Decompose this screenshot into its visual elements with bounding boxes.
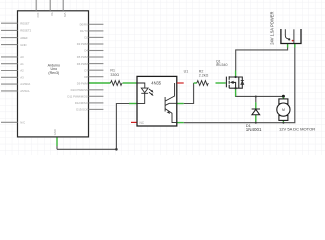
svg-text:D3 PWM: D3 PWM xyxy=(77,42,89,46)
svg-text:D4: D4 xyxy=(84,49,88,53)
svg-text:D2: D2 xyxy=(84,36,88,40)
svg-text:5V: 5V xyxy=(50,13,54,17)
svg-text:A3: A3 xyxy=(20,76,24,80)
svg-text:24V 1.5A POWER: 24V 1.5A POWER xyxy=(270,12,275,45)
svg-text:D8: D8 xyxy=(84,75,88,79)
svg-text:GND: GND xyxy=(20,43,26,47)
svg-text:D10 PWM/SS: D10 PWM/SS xyxy=(71,88,88,92)
svg-text:12V 5A DC MOTOR: 12V 5A DC MOTOR xyxy=(279,126,315,131)
svg-text:A1: A1 xyxy=(20,62,24,66)
svg-text:A5/SCL: A5/SCL xyxy=(20,89,30,93)
svg-text:D11 PWM/MOSI: D11 PWM/MOSI xyxy=(67,95,88,99)
svg-text:IRL540: IRL540 xyxy=(216,63,228,67)
svg-text:R2: R2 xyxy=(199,69,204,73)
svg-text:D1/TX: D1/TX xyxy=(80,29,88,33)
svg-text:330Ω: 330Ω xyxy=(110,73,119,77)
svg-text:GND: GND xyxy=(53,129,57,135)
svg-text:U1: U1 xyxy=(184,70,189,74)
svg-text:A2: A2 xyxy=(20,69,24,73)
svg-text:2.2kΩ: 2.2kΩ xyxy=(199,74,209,78)
svg-text:D9 PWM: D9 PWM xyxy=(77,81,89,85)
svg-text:AREF: AREF xyxy=(20,36,28,40)
svg-text:A0: A0 xyxy=(20,55,24,59)
svg-text:3V3: 3V3 xyxy=(36,13,40,18)
svg-text:NC: NC xyxy=(140,121,145,125)
svg-text:M: M xyxy=(282,108,285,112)
svg-text:D12/MISO: D12/MISO xyxy=(75,101,89,105)
svg-text:D6 PWM: D6 PWM xyxy=(77,62,89,66)
svg-text:D0/RX: D0/RX xyxy=(80,22,88,26)
svg-text:4N35: 4N35 xyxy=(151,81,162,86)
svg-text:D13/SCK: D13/SCK xyxy=(76,108,88,112)
svg-text:D7: D7 xyxy=(84,68,88,72)
svg-text:A4/SDA: A4/SDA xyxy=(20,82,30,86)
svg-text:1N4001: 1N4001 xyxy=(246,127,262,132)
svg-text:VIN: VIN xyxy=(63,13,67,18)
svg-text:RESET: RESET xyxy=(20,21,30,25)
svg-text:RESET2: RESET2 xyxy=(20,29,31,33)
svg-text:N/C: N/C xyxy=(20,121,25,125)
svg-text:D5 PWM: D5 PWM xyxy=(77,55,89,59)
svg-text:(Rev3): (Rev3) xyxy=(48,71,59,75)
